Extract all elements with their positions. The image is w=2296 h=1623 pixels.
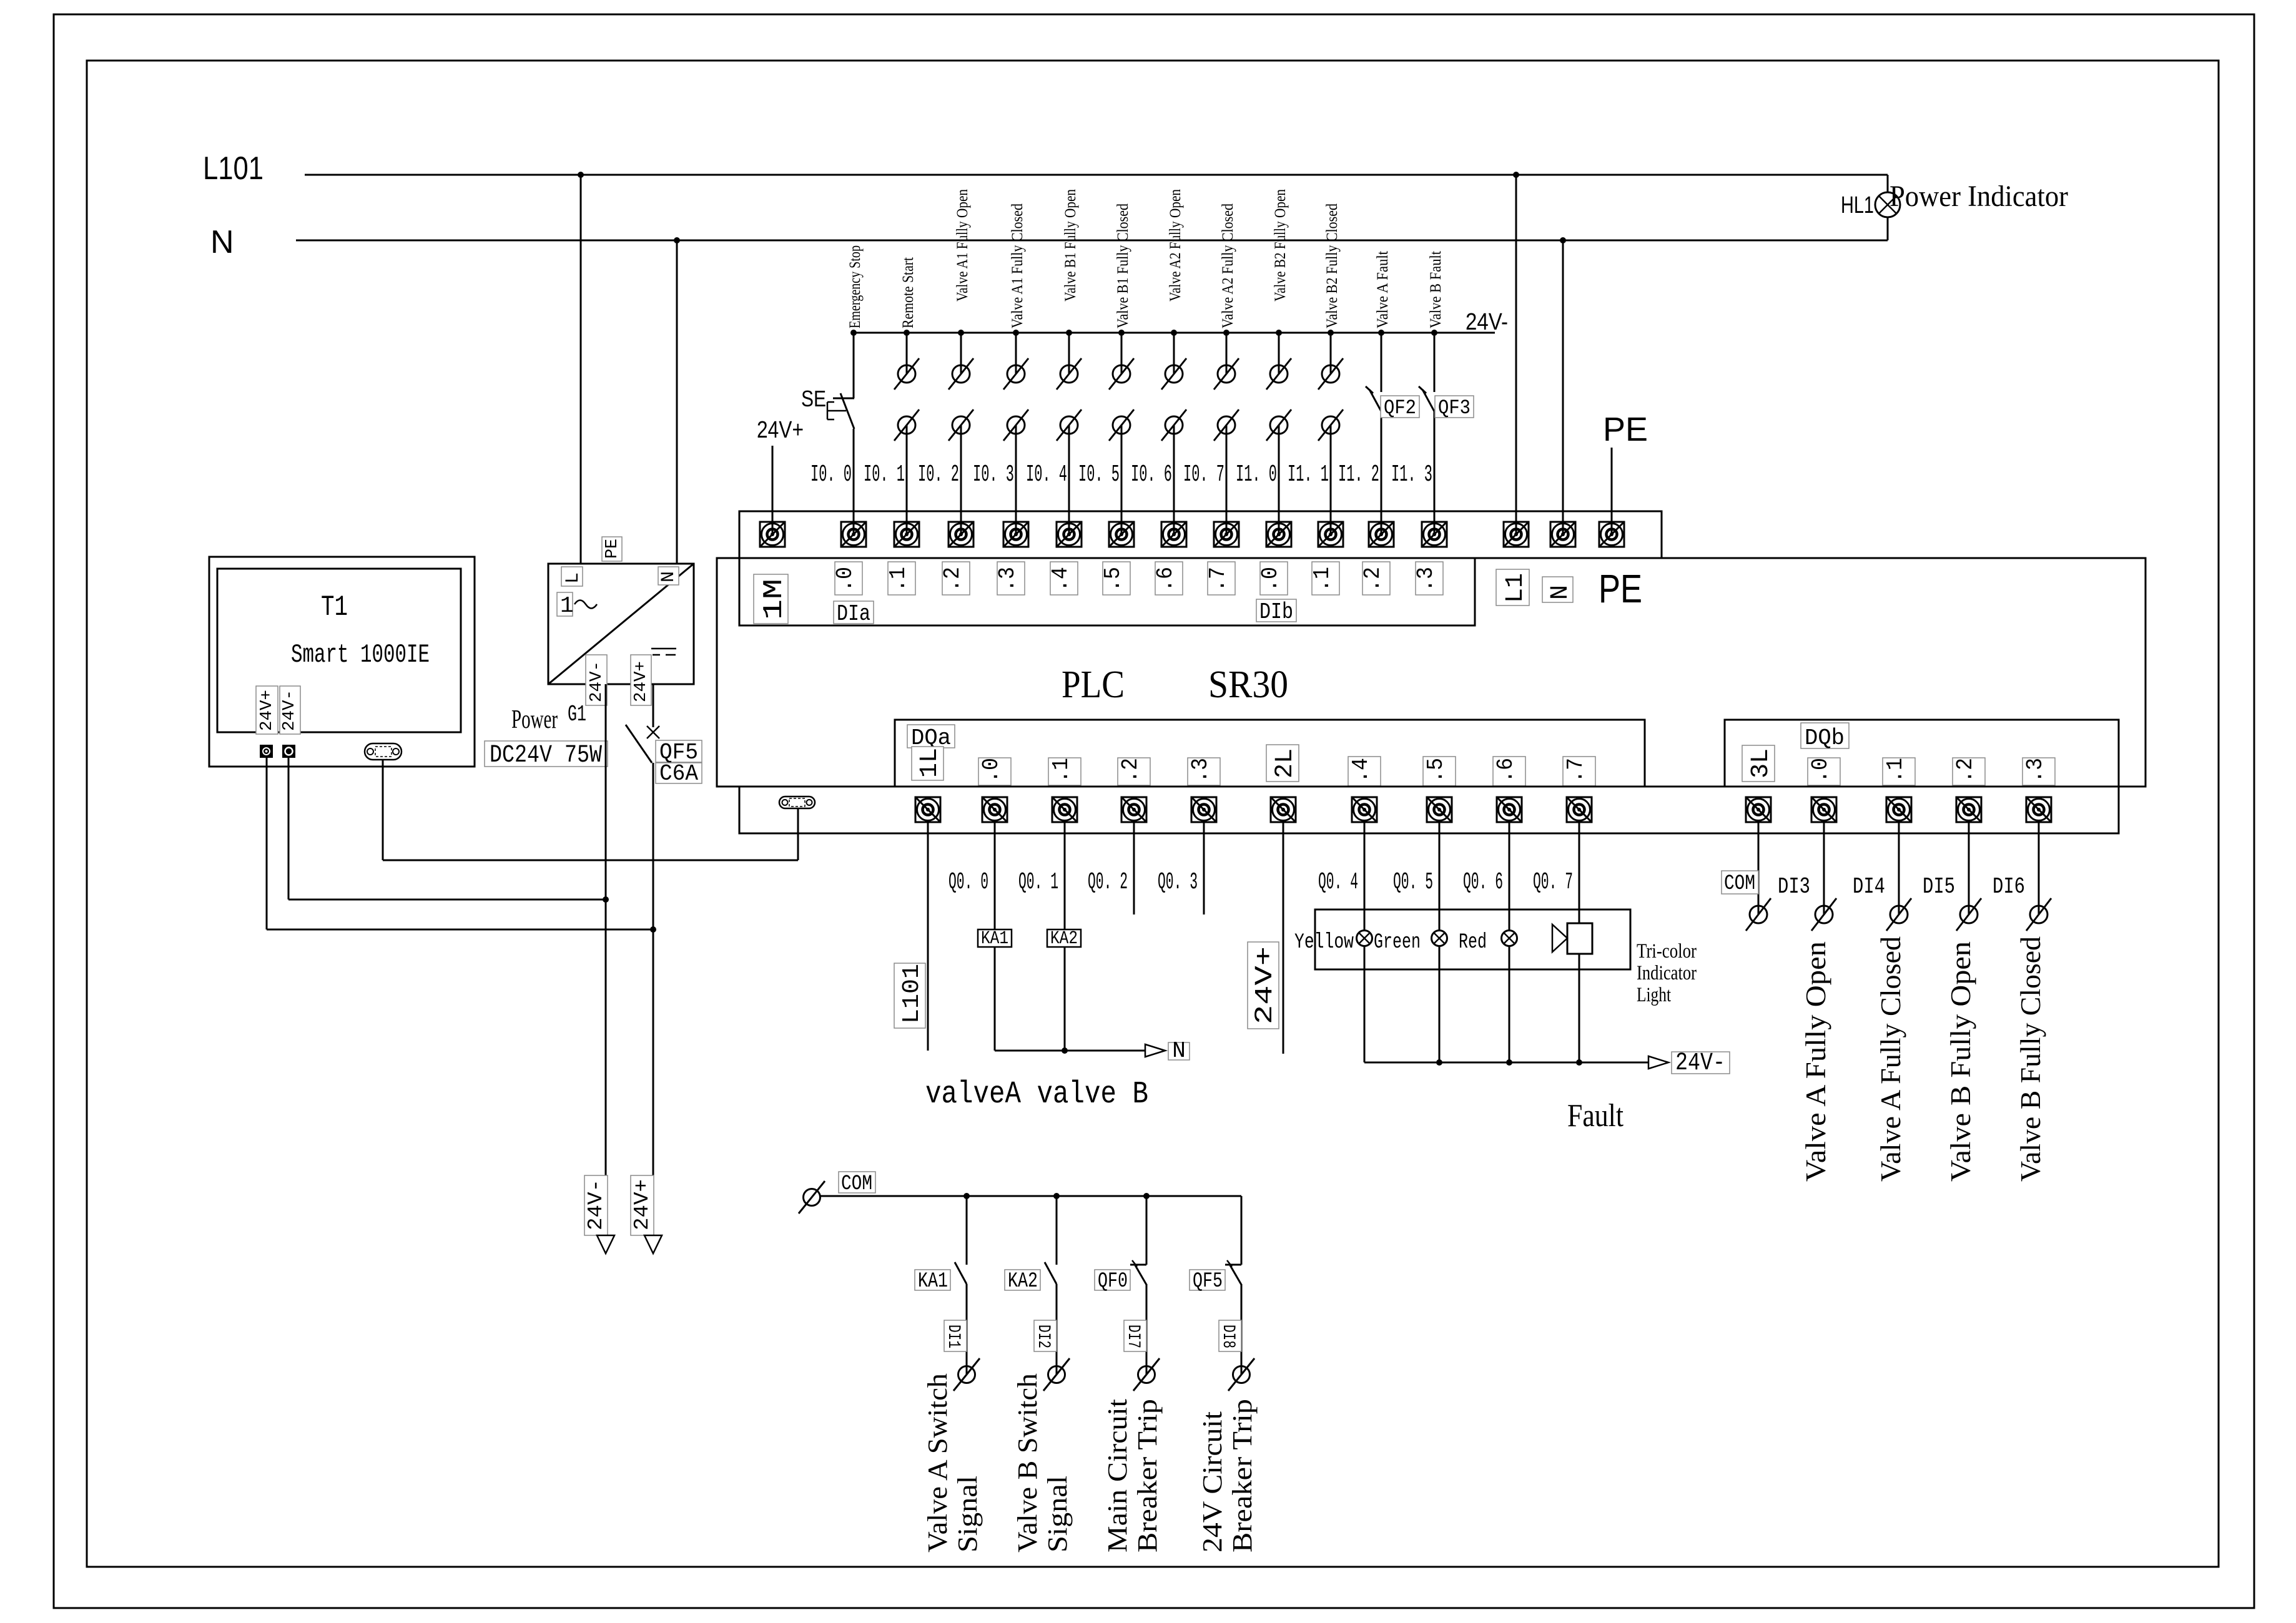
svg-text:I1. 1: I1. 1 [1288, 461, 1329, 488]
contact KA2 [1045, 1262, 1057, 1284]
sensor DI2 [1043, 1358, 1070, 1391]
wire lamp HL1 to N [1887, 217, 1889, 240]
wire 1L (L101) drop [927, 822, 929, 1051]
power supply G1 body [548, 564, 694, 684]
svg-text:DI7: DI7 [1123, 1325, 1143, 1348]
svg-text:DI4: DI4 [1853, 874, 1885, 900]
label pin .0 (I1.0) [1258, 562, 1288, 595]
svg-text:Yellow: Yellow [1294, 931, 1354, 954]
wire green lamp to 24V- bus [1439, 946, 1441, 1062]
sensor DI5 [1956, 898, 1981, 931]
svg-text:24V+: 24V+ [631, 1179, 654, 1230]
tri-color light box [1315, 910, 1630, 969]
svg-text:.1: .1 [1048, 758, 1074, 783]
junction red/24V- [1506, 1059, 1512, 1066]
wire Q0.7 to buzzer [1579, 822, 1580, 923]
terminal 1L [915, 797, 940, 822]
wire bus to sensor I0.3 Valve A1 Fully Closed [1015, 333, 1017, 374]
sensor DI8 [1228, 1358, 1254, 1391]
wire bus to sensor I0.2 Valve A1 Fully Open [960, 333, 962, 374]
lamp green [1432, 931, 1447, 946]
terminal Q0.1 [1052, 797, 1077, 822]
wire QF3 to terminal [1434, 411, 1436, 534]
terminal I0.7 [1214, 522, 1239, 547]
svg-text:KA2: KA2 [1050, 928, 1078, 949]
wire Q0.4 to yellow lamp [1364, 822, 1366, 931]
label L1 [1496, 569, 1530, 606]
terminal Q0.7 [1567, 797, 1592, 822]
svg-text:N: N [210, 224, 234, 260]
wire Q0.1 to KA2 [1064, 822, 1066, 929]
junction N to power supply [674, 237, 680, 243]
svg-text:QF2: QF2 [1384, 396, 1416, 419]
svg-text:DI5: DI5 [1923, 874, 1955, 900]
svg-text:Signal: Signal [1042, 1476, 1073, 1552]
svg-text:24V+: 24V+ [757, 417, 804, 443]
terminal N [1550, 522, 1575, 547]
sensor contact upper I0.4 Valve B1 Fully Open [1057, 358, 1081, 390]
switch SE emergency stop NC contact [827, 333, 854, 429]
svg-text:SE: SE [801, 386, 826, 411]
wire contact to sensor DI2 [1056, 1284, 1058, 1375]
label 24V- (rotated box, bottom) [584, 1175, 608, 1235]
svg-text:24V-: 24V- [1675, 1049, 1725, 1077]
terminal Q0.6 [1497, 797, 1522, 822]
label COM [1722, 871, 1758, 896]
svg-text:N: N [658, 571, 679, 582]
label PE (G1) [602, 537, 622, 561]
wire PE to terminal [1611, 448, 1613, 534]
label 24V+ (rotated box) [1248, 942, 1279, 1029]
port PLC programming connector [779, 797, 815, 808]
svg-text:Red: Red [1459, 931, 1487, 954]
svg-text:24V Circuit: 24V Circuit [1197, 1411, 1228, 1552]
svg-text:I0. 2: I0. 2 [918, 461, 959, 488]
terminal 2L [1271, 797, 1296, 822]
svg-text:.4: .4 [1348, 758, 1374, 783]
svg-text:Valve B Switch: Valve B Switch [1012, 1373, 1043, 1552]
label pin .3 (DI6) [2023, 758, 2055, 785]
wire T1 24V- to 24V- rail [288, 757, 606, 900]
terminal PE [1599, 522, 1624, 547]
junction L101 to L1 terminal [1513, 172, 1519, 178]
svg-text:I0. 1: I0. 1 [864, 461, 905, 488]
svg-text:24V+: 24V+ [258, 690, 277, 731]
svg-text:SR30: SR30 [1208, 664, 1288, 706]
terminal I0.1 [894, 522, 919, 547]
label QF2 [1381, 396, 1419, 419]
svg-text:I0. 5: I0. 5 [1078, 461, 1120, 488]
wire bus to sensor I0.7 Valve A2 Fully Closed [1226, 333, 1228, 374]
svg-text:.5: .5 [1100, 567, 1126, 592]
sensor contact lower I0.3 Valve A1 Fully Closed [1003, 409, 1028, 441]
label pin .0 (Q0.0) [978, 758, 1011, 785]
label pin .6 (Q0.6) [1493, 757, 1525, 786]
svg-text:24V-: 24V- [584, 1179, 608, 1230]
label 3L [1742, 745, 1775, 782]
terminal I0.5 [1109, 522, 1134, 547]
label 24V+ (T1) [256, 686, 278, 734]
wire .3 to DI6 sensor [2038, 822, 2040, 914]
terminal Q0.5 [1427, 797, 1452, 822]
buzzer fault sounder [1552, 923, 1592, 954]
label 24V Circuit Breaker Trip [1197, 1399, 1258, 1552]
lamp red [1502, 931, 1517, 946]
svg-text:Indicator: Indicator [1637, 962, 1697, 984]
svg-text:Valve A1 Fully Open: Valve A1 Fully Open [954, 189, 971, 302]
svg-text:Valve B1 Fully Closed: Valve B1 Fully Closed [1115, 203, 1131, 328]
svg-text:I1. 3: I1. 3 [1391, 461, 1432, 488]
junction 24V- bus column I1.1 [1328, 330, 1334, 336]
wire bus to sensor I0.6 Valve A2 Fully Open [1173, 333, 1175, 374]
sensor contact upper I1.0 Valve B2 Fully Open [1266, 358, 1291, 390]
wire buzzer to 24V- bus [1579, 954, 1580, 1062]
label N target [1168, 1038, 1190, 1064]
svg-text:KA1: KA1 [918, 1270, 948, 1293]
input terminal strip [739, 511, 1662, 558]
terminal I1.1 [1318, 522, 1343, 547]
sensor DI7 [1133, 1358, 1160, 1391]
contact QF5 [1225, 1260, 1241, 1285]
svg-text:Q0. 3: Q0. 3 [1158, 869, 1198, 896]
svg-text:.6: .6 [1153, 567, 1178, 592]
junction KA2/N bus [1062, 1047, 1068, 1054]
svg-text:Q0. 0: Q0. 0 [948, 869, 988, 896]
label QF3 [1435, 396, 1474, 419]
svg-text:.1: .1 [885, 567, 911, 592]
svg-text:PE: PE [1599, 566, 1642, 611]
svg-text:KA2: KA2 [1008, 1270, 1038, 1293]
relay coil KA2 [1047, 928, 1081, 949]
junction 24V- bus column I1.0 [1276, 330, 1282, 336]
label 1L [912, 747, 944, 780]
sensor contact lower I0.7 Valve A2 Fully Closed [1214, 409, 1239, 441]
label 24V- (G1) [586, 655, 607, 705]
label DIb [1256, 599, 1296, 625]
junction 24V- bus column I0.7 [1223, 330, 1229, 336]
svg-text:Q0. 7: Q0. 7 [1533, 869, 1573, 896]
wire L101 into G1 [580, 175, 582, 564]
svg-text:.3: .3 [1188, 758, 1213, 783]
svg-text:Valve B Fault: Valve B Fault [1427, 251, 1444, 328]
sensor DI3 [1811, 898, 1836, 931]
terminal T1 24V+ socket [260, 745, 272, 757]
wire fault 24V- return bus [1364, 1062, 1648, 1064]
terminal I1.0 [1266, 522, 1291, 547]
svg-text:Valve B Fully Closed: Valve B Fully Closed [2015, 936, 2046, 1182]
label L (G1) [561, 567, 584, 586]
svg-text:QF0: QF0 [1098, 1270, 1128, 1293]
arrow to 24V- [1648, 1056, 1668, 1069]
wire sensor to terminal I0.2 Valve A1 Fully Open [960, 425, 962, 534]
wire G1 24V- down [605, 684, 607, 1235]
svg-text:Valve A Fully Open: Valve A Fully Open [1800, 941, 1831, 1182]
label KA1 (bottom) [915, 1270, 950, 1293]
svg-text:PE: PE [603, 539, 622, 559]
output terminal strip [739, 787, 2119, 833]
label 24V- target [1672, 1049, 1730, 1077]
svg-text:24V+: 24V+ [1251, 946, 1279, 1024]
label pin .2 (I1.2) [1360, 562, 1390, 595]
label pin .3 (Q0.3) [1188, 758, 1220, 785]
lamp HL1 [1875, 192, 1900, 217]
svg-text:DI6: DI6 [1993, 874, 2025, 900]
wire Q0.5 to green lamp [1439, 822, 1441, 931]
svg-text:I0. 3: I0. 3 [973, 461, 1014, 488]
svg-text:Q0. 2: Q0. 2 [1088, 869, 1128, 896]
svg-text:I0. 0: I0. 0 [810, 461, 852, 488]
arrow 24V- down [597, 1235, 614, 1253]
label pin .0 (DI3) [1808, 758, 1840, 785]
breaker QF5 [626, 725, 659, 763]
junction green/24V- [1436, 1059, 1442, 1066]
wire .2 to DI5 sensor [1968, 822, 1970, 914]
svg-text:Breaker Trip: Breaker Trip [1132, 1399, 1163, 1552]
svg-text:Emergency Stop: Emergency Stop [847, 245, 864, 328]
svg-text:N: N [1172, 1038, 1186, 1064]
svg-text:2L: 2L [1271, 748, 1299, 778]
svg-text:I1. 2: I1. 2 [1338, 461, 1379, 488]
label pin .5 (I0.5) [1100, 562, 1130, 595]
svg-text:DI2: DI2 [1033, 1325, 1053, 1348]
svg-text:Light: Light [1637, 984, 1671, 1006]
wire G1 24V+ to QF5 [653, 684, 654, 727]
junction 24V- bus column I1.2 [1378, 330, 1384, 336]
terminal DI3 [1811, 797, 1836, 822]
sensor contact upper I0.1 Remote Start [894, 358, 919, 390]
label 1M [754, 574, 790, 624]
wire sensor to terminal I0.1 Remote Start [906, 425, 908, 534]
wire Q0.0 to KA1 [994, 822, 996, 929]
terminal DI4 [1886, 797, 1911, 822]
terminal DI6 [2026, 797, 2051, 822]
label pin .3 (I1.3) [1413, 562, 1443, 595]
contact KA1 [955, 1262, 967, 1284]
svg-text:Remote Start: Remote Start [900, 257, 917, 328]
svg-text:.6: .6 [1493, 758, 1519, 783]
wire sensor to terminal I0.6 Valve A2 Fully Open [1173, 425, 1175, 534]
svg-text:Valve A Fault: Valve A Fault [1374, 251, 1391, 328]
sensor contact lower I0.2 Valve A1 Fully Open [948, 409, 973, 441]
HMI T1 body [209, 557, 475, 767]
svg-text:PE: PE [1603, 411, 1648, 448]
svg-text:1: 1 [560, 593, 574, 619]
sensor contact lower I1.1 Valve B2 Fully Closed [1318, 409, 1343, 441]
wire N into G1 [676, 240, 678, 564]
label pin .1 (I0.1) [885, 562, 915, 595]
sensor contact upper I1.1 Valve B2 Fully Closed [1318, 358, 1343, 390]
svg-text:Valve A2 Fully Closed: Valve A2 Fully Closed [1219, 203, 1236, 328]
PLC SR30 main body [717, 558, 2146, 787]
label DQb [1801, 723, 1849, 751]
label DI2 (rotated) [1033, 1320, 1057, 1351]
wire sensor to terminal I1.0 Valve B2 Fully Open [1278, 425, 1280, 534]
wire N drop to terminal [1562, 240, 1564, 534]
svg-text:.7: .7 [1563, 758, 1589, 783]
svg-text:Valve A Switch: Valve A Switch [922, 1373, 953, 1552]
wire bus to contact QF5 [1241, 1196, 1243, 1265]
svg-text:.3: .3 [1413, 567, 1439, 592]
svg-text:Q0. 1: Q0. 1 [1018, 869, 1058, 896]
label DI7 (rotated) [1123, 1320, 1146, 1351]
wire Q0.3 stub [1203, 822, 1205, 914]
label pin .7 (I0.7) [1205, 562, 1235, 595]
svg-text:.1: .1 [1309, 567, 1335, 592]
label pin .1 (I1.1) [1309, 562, 1339, 595]
wire SE to terminal I0.0 [853, 429, 855, 534]
junction COM bus KA1 [963, 1193, 970, 1199]
wire valve N return bus [995, 1050, 1145, 1052]
wire COM bus [820, 1195, 1241, 1197]
wire sensor to terminal I0.5 Valve B1 Fully Closed [1121, 425, 1123, 534]
svg-text:.2: .2 [1118, 758, 1143, 783]
svg-text:L1: L1 [1502, 573, 1530, 603]
sensor contact lower I0.5 Valve B1 Fully Closed [1109, 409, 1134, 441]
svg-text:.5: .5 [1423, 758, 1449, 783]
sensor contact lower I1.0 Valve B2 Fully Open [1266, 409, 1291, 441]
junction COM bus KA2 [1053, 1193, 1060, 1199]
DC symbol [651, 649, 676, 655]
terminal Q0.4 [1352, 797, 1377, 822]
svg-text:I0. 4: I0. 4 [1026, 461, 1067, 488]
terminal I0.6 [1161, 522, 1186, 547]
svg-text:DI3: DI3 [1778, 874, 1810, 900]
terminal 1M [760, 522, 785, 547]
wire N bus [296, 240, 1888, 242]
terminal T1 24V- socket [283, 745, 295, 757]
svg-text:Smart 1000IE: Smart 1000IE [291, 640, 430, 670]
svg-text:Valve B2 Fully Closed: Valve B2 Fully Closed [1324, 203, 1341, 328]
terminal I0.0 [841, 522, 866, 547]
label QF0 (bottom) [1095, 1270, 1130, 1293]
label Main Circuit Breaker Trip [1102, 1399, 1163, 1552]
svg-text:Power: Power [511, 705, 558, 734]
junction COM bus QF0 [1143, 1193, 1150, 1199]
svg-text:QF5: QF5 [1193, 1270, 1223, 1293]
label C6A [656, 761, 702, 787]
terminal Q0.3 [1191, 797, 1216, 822]
terminal L1 [1504, 522, 1529, 547]
label COM (bottom) [839, 1172, 875, 1196]
label pin .5 (Q0.5) [1423, 757, 1456, 786]
svg-text:24V-: 24V- [588, 661, 606, 702]
wire .0 to DI3 sensor [1823, 822, 1825, 914]
wire sensor to terminal I0.7 Valve A2 Fully Closed [1226, 425, 1228, 534]
wire sensor to terminal I1.1 Valve B2 Fully Closed [1330, 425, 1332, 534]
svg-text:HL1: HL1 [1841, 192, 1874, 218]
terminal I0.2 [948, 522, 973, 547]
svg-text:.3: .3 [995, 567, 1020, 592]
terminal I0.4 [1057, 522, 1081, 547]
wire L101 to lamp HL1 [1887, 175, 1889, 193]
svg-text:3L: 3L [1747, 748, 1775, 778]
label 2L [1266, 745, 1299, 782]
svg-text:24V-: 24V- [1466, 309, 1508, 335]
svg-text:DI8: DI8 [1218, 1325, 1238, 1348]
svg-text:L101: L101 [899, 964, 925, 1024]
svg-text:Valve A2 Fully Open: Valve A2 Fully Open [1167, 189, 1184, 302]
relay coil KA1 [978, 928, 1012, 949]
label N (G1) [658, 567, 679, 585]
wire KA1 to N bus [994, 947, 996, 1051]
wire bus to sensor I1.1 Valve B2 Fully Closed [1330, 333, 1332, 374]
label pin .3 (I0.3) [995, 562, 1025, 595]
junction buzzer/24V- [1576, 1059, 1582, 1066]
label pin .2 (Q0.2) [1118, 758, 1150, 785]
svg-text:Valve A Fully Closed: Valve A Fully Closed [1875, 936, 1906, 1182]
label pin .1 (Q0.1) [1048, 758, 1081, 785]
label pin .4 (Q0.4) [1348, 757, 1381, 786]
svg-text:.7: .7 [1205, 567, 1231, 592]
svg-text:I1. 0: I1. 0 [1236, 461, 1277, 488]
sensor contact lower I0.6 Valve A2 Fully Open [1161, 409, 1186, 441]
junction 24V- bus column I0.6 [1171, 330, 1177, 336]
svg-text:1M: 1M [759, 579, 790, 620]
svg-text:.2: .2 [1953, 758, 1978, 783]
svg-text:.1: .1 [1883, 758, 1908, 783]
svg-text:.0: .0 [1258, 567, 1283, 592]
label DQa [907, 725, 955, 751]
sensor COM (bottom) [799, 1181, 825, 1214]
svg-text:L101: L101 [203, 150, 264, 187]
sensor contact lower I0.1 Remote Start [894, 409, 919, 441]
svg-text:Tri-color: Tri-color [1637, 940, 1697, 963]
label pin .2 (I0.2) [940, 562, 970, 595]
label pin .6 (I0.6) [1153, 562, 1183, 595]
sensor contact upper I0.6 Valve A2 Fully Open [1161, 358, 1186, 390]
svg-text:Valve A1 Fully Closed: Valve A1 Fully Closed [1009, 203, 1026, 328]
svg-text:PLC: PLC [1062, 664, 1125, 706]
label Tri-color Indicator Light [1637, 940, 1697, 1006]
svg-text:valveA valve B: valveA valve B [925, 1077, 1148, 1112]
wire 3L to COM sensor [1758, 822, 1760, 914]
arrow 24V+ down [644, 1235, 662, 1253]
junction 24V- bus column I0.3 [1013, 330, 1019, 336]
sensor contact upper I0.3 Valve A1 Fully Closed [1003, 358, 1028, 390]
wire T1 serial to PLC port [383, 760, 798, 860]
wire QF2 to terminal [1381, 411, 1382, 534]
junction 24V- bus column I0.1 [904, 330, 910, 336]
terminal I1.2 [1369, 522, 1394, 547]
junction 24V+ rail [650, 926, 656, 933]
contact QF0 [1130, 1260, 1146, 1285]
terminal Q0.0 [982, 797, 1007, 822]
svg-text:Valve B2 Fully Open: Valve B2 Fully Open [1272, 189, 1289, 302]
svg-text:COM: COM [841, 1172, 872, 1196]
svg-text:.4: .4 [1048, 567, 1073, 592]
svg-text:.2: .2 [940, 567, 965, 592]
svg-text:DIa: DIa [837, 601, 870, 627]
svg-text:Fault: Fault [1567, 1098, 1623, 1134]
label pin .0 (I0.0) [832, 562, 862, 595]
sensor contact lower I0.4 Valve B1 Fully Open [1057, 409, 1081, 441]
svg-text:N: N [1547, 585, 1575, 600]
wire contact to sensor DI7 [1146, 1284, 1148, 1375]
wire bus to contact KA1 [966, 1196, 968, 1265]
svg-text:T1: T1 [321, 591, 348, 624]
svg-text:Valve B1 Fully Open: Valve B1 Fully Open [1062, 189, 1079, 302]
wire .1 to DI4 sensor [1898, 822, 1900, 914]
wire bus to sensor I1.0 Valve B2 Fully Open [1278, 333, 1280, 374]
svg-text:.2: .2 [1360, 567, 1386, 592]
svg-text:I0. 7: I0. 7 [1183, 461, 1224, 488]
input pin label row box [739, 558, 1475, 625]
wire Q0.6 to red lamp [1509, 822, 1510, 931]
label QF5 [656, 740, 702, 765]
label pin .4 (I0.4) [1048, 562, 1078, 595]
arrow to N [1145, 1044, 1165, 1057]
wire KA2 to N bus [1064, 947, 1066, 1051]
